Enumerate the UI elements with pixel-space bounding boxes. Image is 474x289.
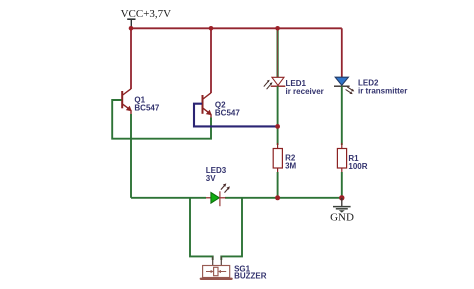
svg-text:BC547: BC547: [215, 109, 240, 118]
svg-text:GND: GND: [330, 212, 354, 224]
LED1 ir receiver: [264, 77, 286, 92]
resistor R2: [273, 143, 282, 174]
wire buzzer loop left: [190, 198, 213, 260]
svg-text:100R: 100R: [348, 162, 367, 171]
svg-text:BUZZER: BUZZER: [234, 271, 267, 280]
wire LED2 cathode down: [341, 86, 343, 145]
junction bottom rail R1/GND: [339, 195, 344, 200]
wire R1 to bottom rail: [341, 172, 343, 198]
LED3: [206, 183, 230, 206]
svg-text:3V: 3V: [206, 174, 216, 183]
wire LED1 anode drop (green net): [277, 28, 279, 77]
wire Q2 base net (blue): [194, 104, 278, 127]
pin LED1 anode: [277, 30, 279, 78]
gnd symbol: [333, 198, 351, 213]
junction top rail Q2: [209, 26, 214, 31]
junction blue net at LED1 column: [275, 124, 280, 129]
wire bottom rail: [131, 197, 206, 199]
buzzer SG1: [201, 256, 232, 278]
junction bottom rail R2: [275, 195, 280, 200]
svg-text:3M: 3M: [285, 161, 296, 170]
wire LED2 anode drop: [341, 28, 343, 77]
junction at VCC: [129, 26, 134, 31]
wire VCC top rail: [131, 27, 342, 29]
wire Q1 base net (green) to Q2 emitter: [112, 100, 211, 139]
wire Q1 collector drop: [130, 28, 132, 89]
transistor Q1: [122, 89, 132, 116]
LED2 ir transmitter: [334, 77, 354, 94]
svg-text:ir receiver: ir receiver: [286, 87, 324, 96]
resistor R1: [337, 143, 346, 174]
wire Q1 emitter down: [130, 114, 132, 198]
svg-text:BC547: BC547: [134, 104, 159, 113]
svg-text:VCC+3,7V: VCC+3,7V: [121, 8, 172, 20]
wire Q2 collector drop: [210, 28, 212, 93]
svg-text:ir transmitter: ir transmitter: [358, 86, 407, 95]
wire R2 to bottom rail: [277, 172, 279, 198]
transistor Q2: [203, 93, 212, 120]
junction top rail LED1: [275, 26, 280, 31]
wire LED1 cathode to junction: [277, 86, 279, 145]
wire buzzer loop right: [221, 198, 242, 260]
vcc symbol: [127, 19, 135, 27]
